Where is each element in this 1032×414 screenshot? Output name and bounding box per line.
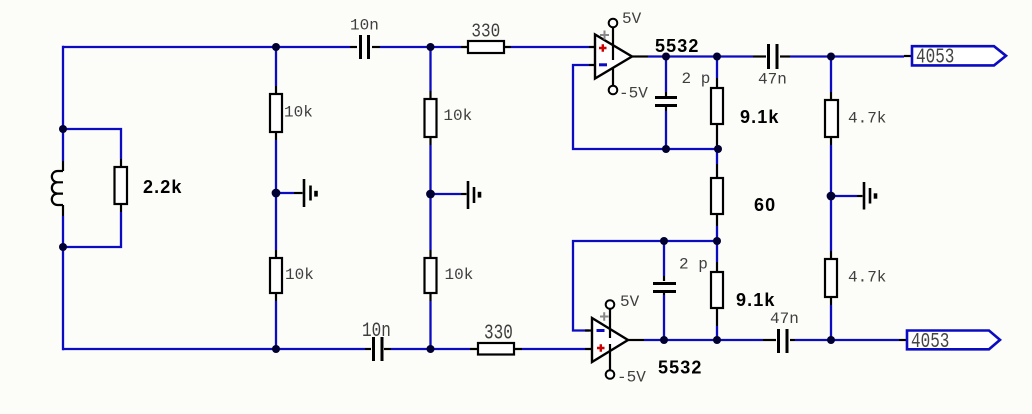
svg-text:5V: 5V (622, 10, 642, 28)
wire cap2p bottom vertical (663, 241, 665, 340)
wire 9.1k top column (716, 57, 718, 242)
capacitor 10n bottom (365, 337, 391, 361)
svg-text:4053: 4053 (916, 44, 954, 69)
svg-text:10n: 10n (350, 17, 379, 35)
junction top output 4.7k (827, 53, 835, 61)
junction bottom output cap2p (660, 336, 668, 344)
wire top rail mid (380, 46, 461, 48)
junction ground2 (426, 190, 435, 199)
resistor 4.7k top leads (830, 92, 832, 145)
junction bottom rail col1 (272, 345, 280, 353)
svg-text:10k: 10k (285, 266, 314, 284)
resistor 10k top col1 (270, 94, 282, 132)
svg-text:10k: 10k (443, 107, 472, 125)
resistor 10k (bottom col1) leads (275, 250, 277, 301)
svg-text:9.1k: 9.1k (740, 107, 779, 127)
capacitor 2p top (655, 92, 677, 111)
svg-text:10k: 10k (445, 266, 474, 284)
wire output rail top (648, 55, 904, 57)
junction top output cap2p (662, 53, 670, 61)
svg-text:4053: 4053 (911, 329, 949, 354)
capacitor 10n top (350, 35, 380, 59)
svg-text:330: 330 (484, 322, 513, 346)
junction feedback top 9.1k (714, 145, 722, 153)
junction bottom output 9.1k (713, 336, 721, 344)
junction bottom output 4.7k (827, 336, 835, 344)
wire col1 vertical (275, 47, 277, 349)
junction L1 bottom (59, 243, 67, 251)
wire feedback top (573, 65, 716, 149)
wire top rail left (63, 46, 350, 48)
svg-text:-5V: -5V (619, 85, 648, 103)
capacitor 47n top (753, 44, 790, 69)
capacitor 47n bottom (763, 329, 795, 353)
svg-text:4.7k: 4.7k (848, 110, 886, 128)
wire ground2 branch (431, 193, 462, 195)
resistor 10k bottom col2 (425, 258, 437, 293)
ground 2 (461, 181, 480, 209)
svg-text:2 p: 2 p (679, 255, 708, 273)
svg-text:47n: 47n (758, 71, 787, 89)
connector 4053 bottom (899, 329, 1000, 354)
resistor 4.7k bottom (825, 259, 837, 297)
junction L1 top (59, 125, 67, 133)
resistor 9.1k top (711, 88, 723, 124)
resistor 330 bottom leads (470, 348, 522, 350)
resistor 10k (top col1) leads (275, 86, 277, 140)
svg-text:2 p: 2 p (682, 70, 711, 88)
wire output rail bottom (644, 339, 899, 341)
junction ground3 (827, 192, 836, 201)
svg-text:5V: 5V (620, 293, 640, 311)
resistor R 2.2k (115, 167, 128, 204)
wire bottom rail (63, 348, 585, 350)
resistor 10k (bottom col2) leads (429, 250, 431, 301)
junction top rail col2 (427, 43, 435, 51)
svg-text:5532: 5532 (655, 36, 699, 56)
resistor 9.1k bottom (711, 272, 723, 308)
svg-text:10k: 10k (284, 104, 313, 122)
wire left vertical lower (62, 216, 64, 350)
svg-text:4.7k: 4.7k (848, 269, 886, 287)
wire ground3 branch (831, 195, 857, 197)
connector 4053 top (904, 44, 1006, 69)
svg-text:330: 330 (471, 21, 500, 43)
resistor 4.7k bottom leads (830, 251, 832, 305)
junction feedback top cap2p (662, 145, 670, 153)
resistor 10k bottom col1 (270, 258, 282, 293)
svg-text:2.2k: 2.2k (143, 177, 182, 197)
junction feedback bottom cap2p (660, 237, 668, 245)
wire 4.7k top column (830, 57, 832, 341)
wire branch L1 bottom (63, 212, 121, 247)
wire col2 vertical (429, 47, 431, 349)
wire ground1 branch (276, 192, 294, 194)
ground 3 (857, 182, 876, 210)
resistor 2.2k leads (120, 159, 122, 212)
resistor 9.1k bottom leads (716, 262, 718, 326)
svg-text:5532: 5532 (658, 358, 702, 378)
resistor 60 (711, 178, 723, 214)
ground 1 (294, 179, 316, 207)
junction top output 9.1k (713, 53, 721, 61)
resistor 10k top col2 (425, 99, 437, 137)
wire feedback bottom (573, 241, 716, 331)
op-amp U1 (top 5532) (589, 19, 648, 95)
svg-text:47n: 47n (770, 310, 799, 328)
junction feedback bottom 9.1k (713, 237, 721, 245)
op-amp U2 (bottom 5532) (585, 300, 644, 379)
svg-text:9.1k: 9.1k (736, 290, 775, 310)
resistor 10k (top col2) leads (429, 91, 431, 145)
svg-text:-5V: -5V (617, 369, 646, 387)
resistor 330 top leads (461, 46, 511, 48)
wire 9.1k bottom column (716, 241, 718, 340)
resistor 9.1k top leads (716, 78, 718, 147)
wire top rail right (511, 46, 589, 48)
capacitor 2p bottom (653, 276, 676, 295)
junction ground1 (272, 189, 281, 198)
svg-text:60: 60 (754, 195, 776, 215)
wire branch L1 top (63, 129, 121, 159)
resistor 330 top (468, 41, 504, 53)
resistor 60 leads (716, 164, 718, 226)
wire left vertical upper (62, 46, 64, 161)
junction top rail col1 (272, 43, 280, 51)
resistor 4.7k top (825, 100, 838, 137)
resistor 330 bottom (478, 343, 514, 355)
inductor L1 (52, 161, 63, 216)
svg-text:10n: 10n (362, 321, 391, 343)
wire cap2p top vertical (665, 57, 667, 150)
junction bottom rail col2 (427, 345, 435, 353)
